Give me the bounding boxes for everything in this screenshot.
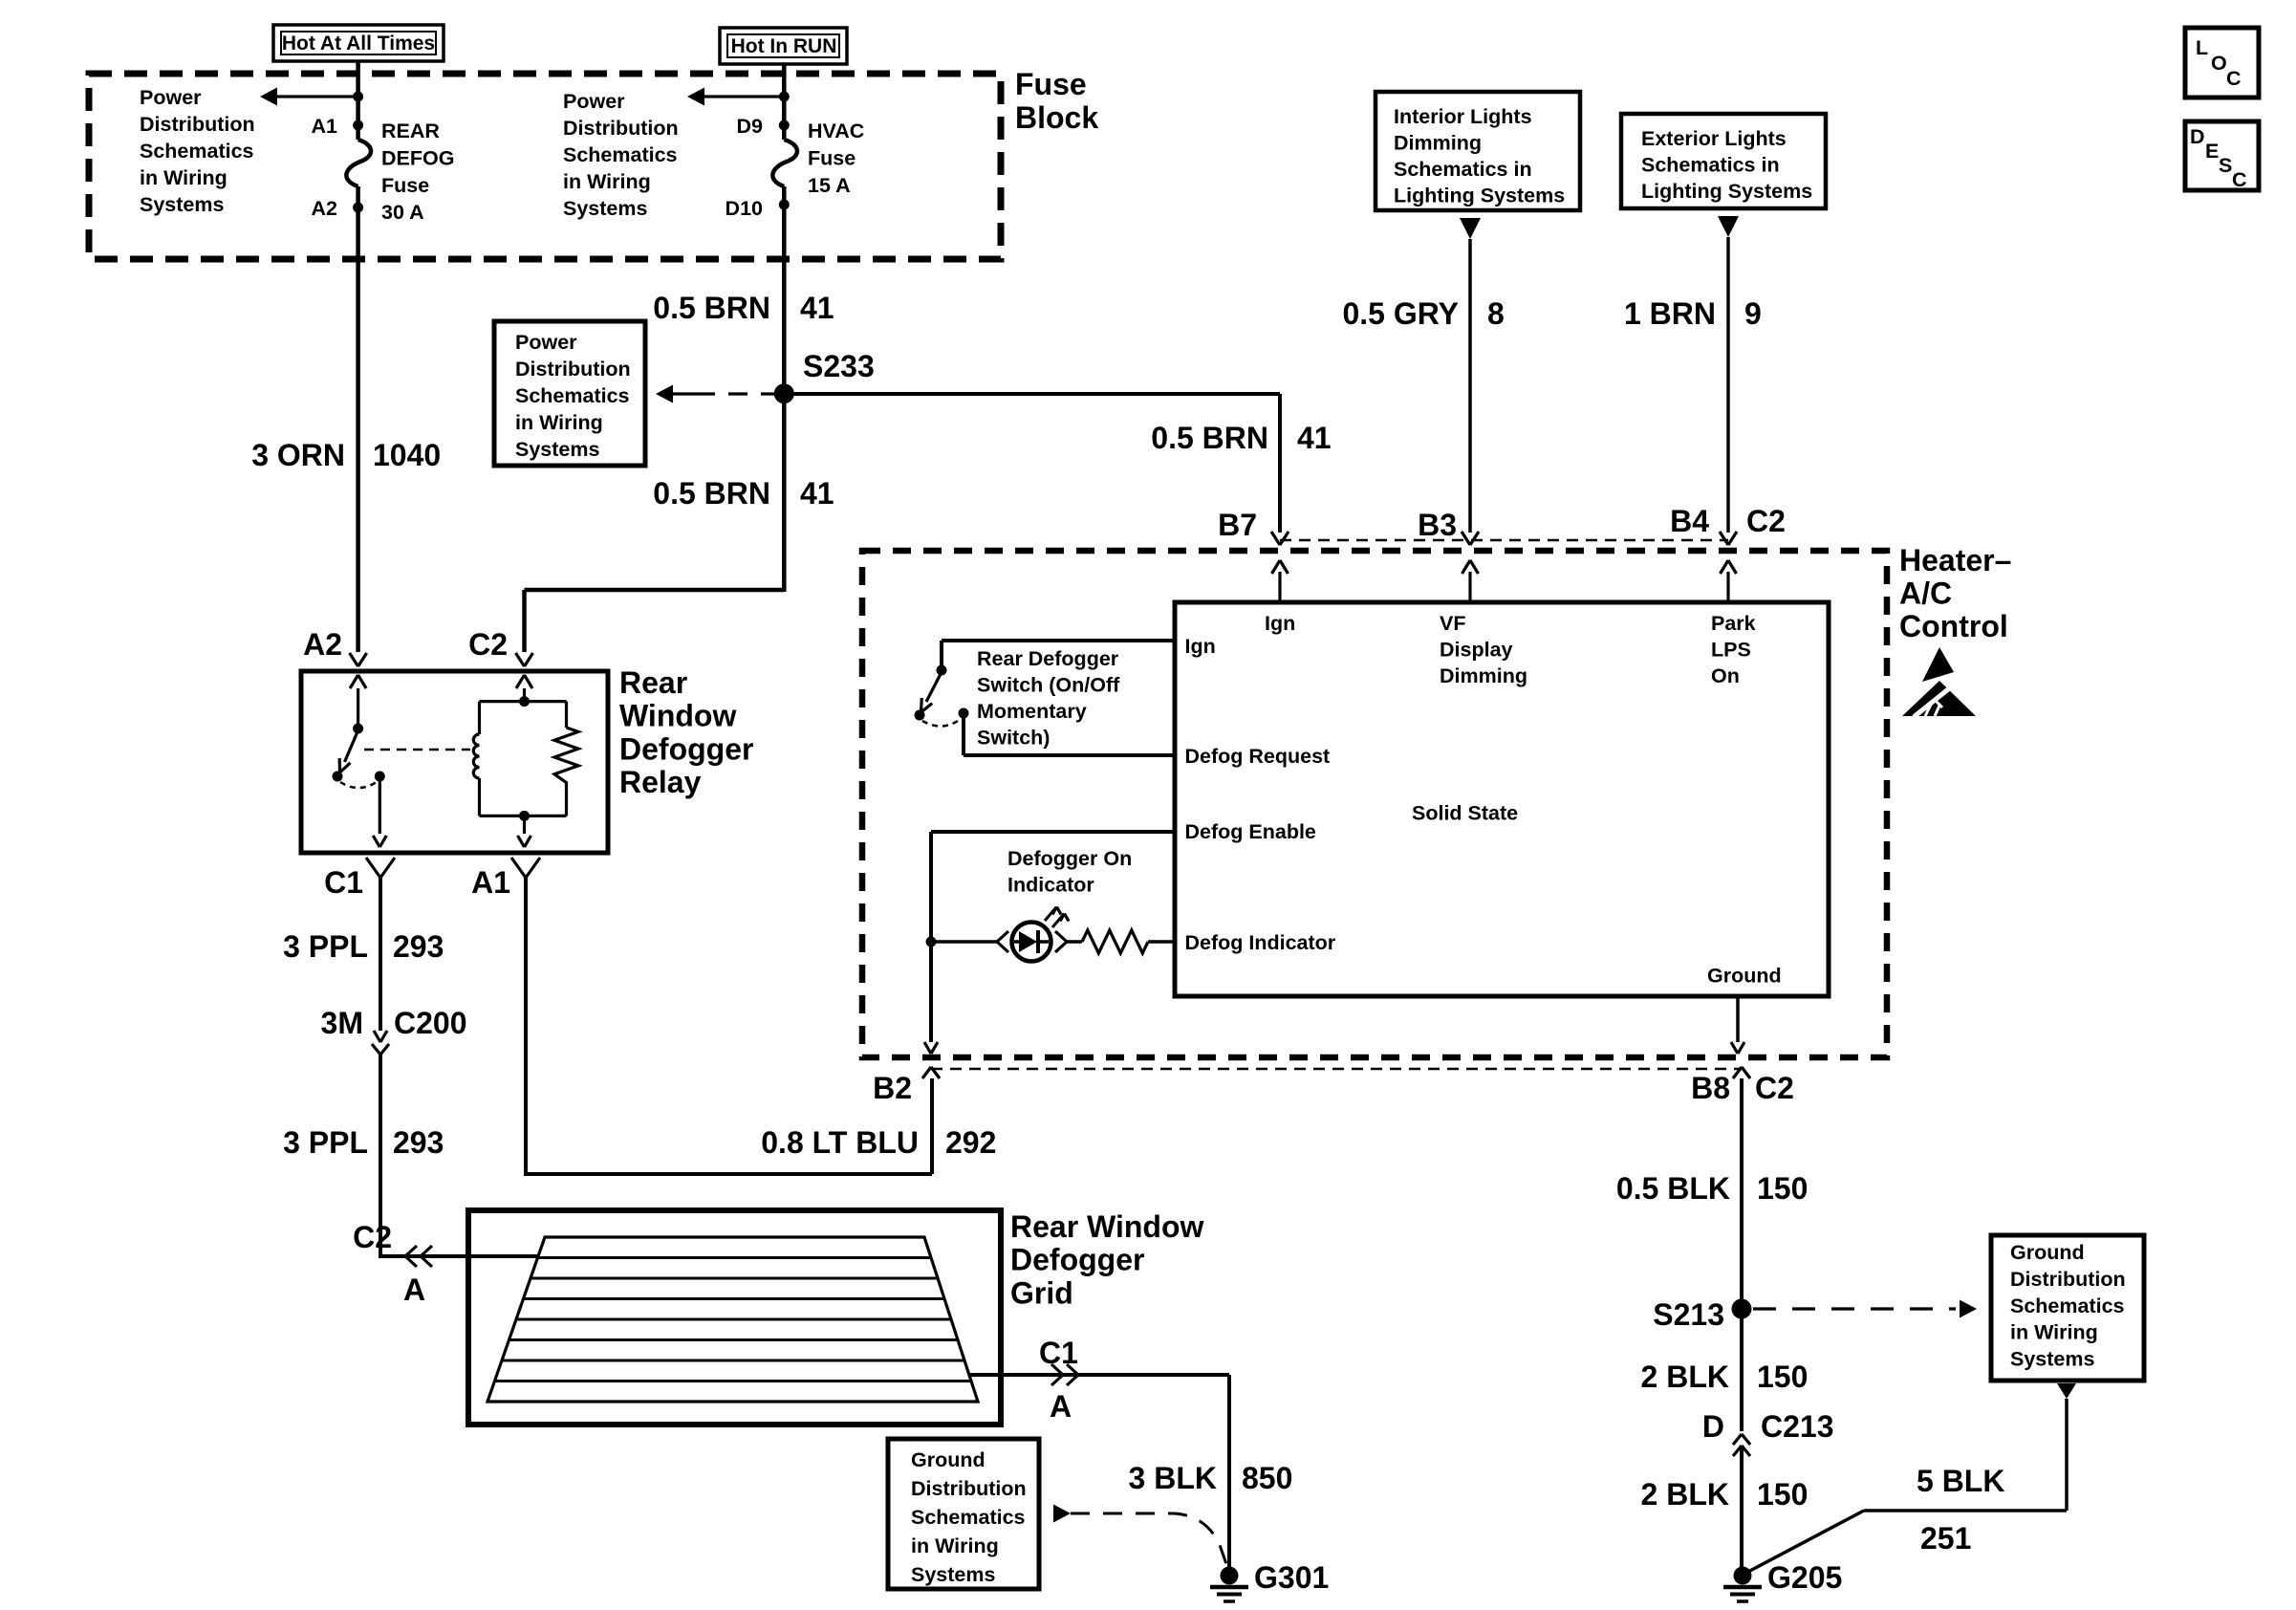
svg-text:Hot In RUN: Hot In RUN [731,35,837,57]
svg-text:VF: VF [1440,612,1465,635]
triangle from exterior lights box [1718,216,1739,237]
wire up to B2 [930,1078,934,1174]
dashed arrow S213 to ground reference box [1753,1307,1956,1310]
svg-text:251: 251 [1920,1521,1971,1556]
svg-text:Distribution: Distribution [515,358,631,381]
relay mechanical dashed link [364,749,470,751]
splice S213 [1732,1299,1752,1319]
svg-text:On: On [1711,664,1740,687]
svg-text:Defog Enable: Defog Enable [1185,820,1316,843]
reference box Ground Distribution Schematics (S213) [1991,1235,2144,1381]
svg-text:0.5 BRN: 0.5 BRN [653,476,770,511]
svg-text:C2: C2 [1755,1071,1794,1105]
svg-text:150: 150 [1757,1360,1808,1394]
svg-text:150: 150 [1757,1171,1808,1206]
grid box Rear Window Defogger Grid [468,1210,1001,1425]
heater a/c control dashed box [862,551,1887,1057]
svg-text:Systems: Systems [911,1563,995,1586]
svg-text:Rear Defogger: Rear Defogger [977,647,1119,670]
svg-text:Schematics: Schematics [911,1506,1026,1529]
arrow to power distribution (left) [276,95,358,98]
svg-text:3 PPL: 3 PPL [283,929,368,964]
svg-text:Rear: Rear [619,665,687,700]
relay coil bottom node [480,815,567,817]
splice S233 [774,383,794,403]
reference box Power Distribution Schematics [494,321,645,466]
svg-text:0.5 GRY: 0.5 GRY [1342,296,1459,331]
wire down to G301 [1227,1375,1231,1570]
relay connector chevron C2 [516,653,525,666]
ground G301 [1221,1567,1239,1585]
DESC box [2185,121,2259,190]
LOC box [2185,28,2259,98]
relay coil top node [519,696,530,707]
svg-text:15 A: 15 A [808,174,851,197]
svg-text:Hot At All Times: Hot At All Times [282,33,435,54]
relay pin arrow C2 (up) [516,675,525,688]
svg-text:Systems: Systems [140,193,224,216]
svg-text:C1: C1 [1039,1336,1078,1370]
svg-text:Interior Lights: Interior Lights [1394,105,1532,128]
relay connector chevron C1 [366,858,380,878]
wire from Hot At All Times [356,61,360,140]
dashed arrow S233 to reference box [656,385,673,403]
inline connector C213 pin D [1733,1434,1742,1445]
svg-text:Power: Power [563,90,625,113]
svg-text:5 BLK: 5 BLK [1917,1464,2004,1498]
svg-text:Window: Window [619,699,736,733]
relay switch contact dots [333,772,343,782]
LED circle [1012,923,1051,962]
node D10 dot [779,200,790,210]
svg-text:850: 850 [1242,1461,1292,1495]
dashed arrow to G301 [1053,1505,1071,1523]
svg-text:8: 8 [1487,296,1505,331]
relay switch pivot dot [353,724,363,734]
wire Defog Enable to B2 [931,830,1175,834]
wire S233 to B7 (horizontal) [784,392,1280,396]
indicator resistor [1082,930,1148,953]
svg-text:Ground: Ground [2010,1241,2085,1264]
svg-text:0.5 BLK: 0.5 BLK [1616,1171,1730,1206]
relay pin arrow A1 (down) [523,816,526,834]
svg-text:Distribution: Distribution [2010,1268,2126,1291]
svg-text:Ign: Ign [1185,635,1216,658]
svg-text:Power: Power [140,86,202,109]
svg-text:41: 41 [800,476,834,511]
switch wire Defog Request [962,715,965,755]
svg-text:Heater–: Heater– [1899,543,2011,577]
wire C200 down [379,1055,382,1258]
ESD symbol [1922,647,1954,682]
svg-text:Indicator: Indicator [1007,874,1094,897]
relay box Rear Window Defogger Relay [301,671,608,853]
wire HVAC fuse down to S233 [782,186,787,592]
svg-text:Momentary: Momentary [977,700,1087,723]
svg-text:Defog Request: Defog Request [1185,745,1331,768]
svg-text:Schematics: Schematics [2010,1295,2125,1317]
svg-text:Schematics in: Schematics in [1394,158,1532,181]
reference box Exterior Lights Schematics [1621,114,1826,208]
svg-text:A: A [403,1273,425,1307]
svg-text:Power: Power [515,331,577,354]
connector chevron B8 [1733,1067,1742,1078]
svg-text:D: D [1702,1409,1724,1444]
relay resistor (right branch) [565,702,568,728]
svg-text:E: E [2205,140,2219,163]
svg-text:A2: A2 [312,197,338,220]
svg-text:Solid State: Solid State [1412,802,1518,825]
svg-text:C2: C2 [468,627,508,662]
svg-text:3 PPL: 3 PPL [283,1125,368,1160]
svg-text:Lighting Systems: Lighting Systems [1394,185,1565,207]
svg-text:Distribution: Distribution [911,1477,1027,1500]
relay pin arrow A2 (up) [357,688,359,729]
svg-text:0.8 LT BLU: 0.8 LT BLU [761,1125,919,1160]
svg-text:Defogger On: Defogger On [1007,847,1132,870]
ground G205 [1734,1567,1752,1585]
svg-text:G301: G301 [1254,1560,1329,1595]
reference box Interior Lights Dimming Schematics [1375,92,1580,210]
wire grid C1 output [969,1373,1229,1377]
module pin arrow Ign (B7) [1278,572,1281,602]
inline connector C1 pin A (double chevron) [1051,1364,1063,1375]
svg-text:Fuse: Fuse [1015,67,1087,101]
svg-text:A: A [1050,1389,1072,1424]
LED diode [1019,931,1037,952]
svg-text:Switch): Switch) [977,727,1050,750]
arrow to power distribution (right) [704,95,784,98]
wire to defogger grid [380,1254,537,1258]
defogger grid lines [538,1256,932,1259]
inline connector C2 pin A (double chevron) [405,1246,417,1256]
svg-text:C: C [2226,67,2242,90]
switch wire Ign [942,639,1175,642]
svg-text:Defogger: Defogger [1010,1243,1144,1277]
svg-text:Lighting Systems: Lighting Systems [1641,180,1812,203]
svg-text:Schematics in: Schematics in [1641,154,1780,177]
svg-text:Ign: Ign [1265,612,1295,635]
node A1 dot [353,92,363,102]
svg-text:in Wiring: in Wiring [563,170,651,193]
svg-text:9: 9 [1744,296,1762,331]
wire relay A1 down [524,878,528,1176]
connector chevron B4/C2 [1720,532,1728,545]
wire down to B7 [1278,394,1282,533]
triangle from interior lights box [1460,218,1481,239]
svg-text:292: 292 [945,1125,996,1160]
svg-text:C200: C200 [394,1006,467,1040]
svg-text:3M: 3M [321,1006,363,1040]
fuse HVAC 15 A symbol [772,140,797,186]
LED chevron right [1055,931,1067,942]
svg-text:REAR: REAR [381,120,440,142]
svg-text:DEFOG: DEFOG [381,146,454,169]
relay switch to C1 with arrow [379,778,381,834]
triangle from ground reference box [2057,1383,2076,1399]
svg-text:D9: D9 [737,115,764,138]
svg-text:C2: C2 [1746,504,1786,538]
svg-text:D10: D10 [726,197,763,220]
reference box Ground Distribution Schematics (G301) [888,1439,1039,1589]
svg-text:Distribution: Distribution [140,113,255,136]
svg-text:A2: A2 [303,627,342,662]
svg-text:Schematics: Schematics [515,384,630,407]
svg-text:S233: S233 [803,349,875,383]
svg-text:Distribution: Distribution [563,117,679,140]
wire fuse to relay A2 [356,186,360,652]
svg-text:Switch (On/Off: Switch (On/Off [977,674,1120,697]
svg-text:2 BLK: 2 BLK [1641,1477,1729,1512]
rear defogger switch [937,665,947,676]
Hot In RUN header box [720,28,847,64]
svg-text:Control: Control [1899,609,2008,643]
svg-text:G205: G205 [1767,1560,1842,1595]
svg-text:L: L [2196,36,2208,59]
thin dashed connector line (bottom) [931,1068,1742,1071]
svg-text:293: 293 [393,1125,444,1160]
svg-text:LPS: LPS [1711,639,1751,662]
junction dot defog indicator [926,937,937,947]
svg-text:C1: C1 [324,865,363,900]
svg-text:41: 41 [1297,421,1332,455]
svg-text:41: 41 [800,291,834,325]
wire S233 down and left to relay C2 [525,588,785,593]
module pin arrow Park (B4) [1726,572,1729,602]
svg-text:0.5 BRN: 0.5 BRN [653,291,770,325]
svg-text:A1: A1 [312,115,338,138]
svg-text:0.5 BRN: 0.5 BRN [1151,421,1268,455]
svg-text:Exterior Lights: Exterior Lights [1641,127,1787,150]
relay switch arm [345,730,358,762]
defogger grid trapezoid [487,1237,978,1402]
svg-text:A1: A1 [471,865,510,900]
LED light arrows [1045,907,1056,921]
svg-text:Park: Park [1711,612,1756,635]
svg-text:O: O [2211,52,2227,75]
svg-text:HVAC: HVAC [808,120,864,142]
connector chevron B3 [1462,532,1470,545]
relay connector chevron A2 [350,653,358,666]
svg-text:Block: Block [1015,100,1098,135]
svg-text:Systems: Systems [563,197,647,220]
svg-text:S: S [2219,154,2232,177]
svg-text:Dimming: Dimming [1394,132,1482,155]
svg-text:in Wiring: in Wiring [515,411,603,434]
svg-text:S213: S213 [1653,1297,1724,1332]
svg-text:Defogger: Defogger [619,731,753,766]
svg-text:C: C [2232,168,2247,191]
solid state module box [1175,602,1829,996]
fuse block dashed outline [89,74,1001,259]
node D9 dot [779,92,790,102]
svg-text:in Wiring: in Wiring [140,166,227,189]
svg-text:3 BLK: 3 BLK [1129,1461,1217,1495]
connector chevron B2 [922,1067,931,1078]
svg-text:in Wiring: in Wiring [2010,1321,2098,1344]
svg-text:150: 150 [1757,1477,1808,1512]
svg-text:Defog Indicator: Defog Indicator [1185,931,1336,954]
svg-text:B4: B4 [1670,504,1709,538]
svg-text:3 ORN: 3 ORN [251,438,345,472]
wire from Hot In RUN [782,64,787,140]
svg-text:Fuse: Fuse [381,174,429,197]
svg-text:B2: B2 [873,1071,912,1105]
svg-text:B7: B7 [1218,508,1257,542]
svg-text:Relay: Relay [619,765,702,799]
relay switch dashed throw arc [340,782,377,788]
wire interior lights to B3 [1468,239,1472,533]
svg-text:Systems: Systems [2010,1348,2094,1371]
svg-text:30 A: 30 A [381,201,424,224]
svg-text:A/C: A/C [1899,577,1952,611]
switch dashed throw arc [922,719,961,727]
thin dashed connector line (top) [1280,539,1728,542]
wire B8 down [1740,1078,1744,1431]
svg-text:in Wiring: in Wiring [911,1534,999,1557]
node A2 dot [353,203,363,213]
svg-text:Schematics: Schematics [140,140,254,163]
relay connector chevron A1 [511,858,526,878]
svg-text:B8: B8 [1691,1071,1730,1105]
svg-text:C2: C2 [353,1220,392,1254]
svg-text:1040: 1040 [373,438,441,472]
connector chevron B7 [1271,532,1280,545]
svg-text:293: 293 [393,929,444,964]
svg-text:Rear Window: Rear Window [1010,1209,1204,1244]
relay coil (left branch) [478,702,481,734]
wire 5 BLK 251 [2065,1399,2069,1511]
LED indicator wire [931,940,997,944]
svg-text:Dimming: Dimming [1440,664,1527,687]
svg-text:Ground: Ground [1707,965,1782,988]
wire C1 down [379,878,382,1031]
module pin arrow VF (B3) [1468,572,1471,602]
inline connector C200 pin 3M [374,1031,380,1042]
svg-text:D: D [2190,125,2205,148]
svg-text:Display: Display [1440,639,1513,662]
svg-text:Grid: Grid [1010,1275,1073,1310]
svg-text:B3: B3 [1418,508,1457,542]
svg-text:C213: C213 [1761,1409,1834,1444]
svg-text:2 BLK: 2 BLK [1641,1360,1729,1394]
Hot At All Times header box [273,25,444,61]
svg-text:Fuse: Fuse [808,146,856,169]
svg-text:1 BRN: 1 BRN [1624,296,1716,331]
svg-text:Schematics: Schematics [563,143,678,166]
svg-text:Ground: Ground [911,1448,986,1471]
fuse REAR DEFOG 30 A symbol [346,140,371,186]
svg-text:Systems: Systems [515,438,599,461]
wire exterior lights to B4 [1726,237,1730,533]
